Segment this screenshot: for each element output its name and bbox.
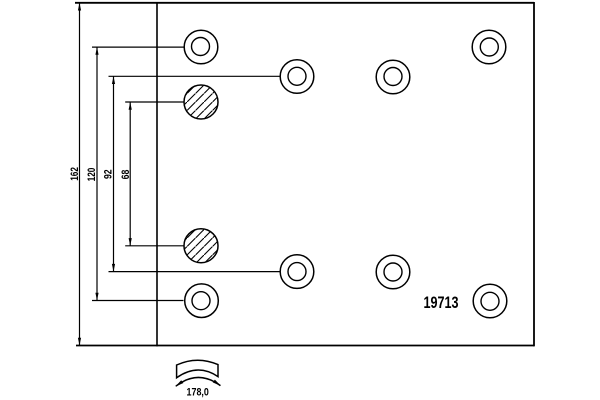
part outline left edge — [156, 2, 158, 346]
curved lining band symbol — [177, 360, 218, 378]
dimension 120 label — [86, 168, 98, 182]
hatched hole lower — [184, 229, 218, 263]
dimension 120 line — [95, 47, 98, 300]
dimension 120 bottom leader — [92, 300, 184, 302]
svg-text:68: 68 — [120, 170, 132, 180]
dimension 68 label — [120, 170, 132, 180]
hole ring top third — [376, 60, 410, 94]
hole ring bottom third — [376, 255, 410, 289]
dimension 68 line — [129, 102, 132, 246]
svg-text:120: 120 — [86, 168, 98, 182]
dimension 92 label — [103, 169, 115, 179]
dimension 162 line — [78, 3, 81, 346]
dimension 92 bottom leader — [109, 271, 280, 273]
hole ring top second — [280, 60, 314, 94]
part number 19713 — [424, 294, 459, 312]
svg-text:19713: 19713 — [424, 294, 459, 312]
dimension 92 line — [112, 76, 115, 271]
dimension 92 top leader — [109, 75, 280, 77]
svg-text:162: 162 — [69, 167, 81, 181]
hatched hole upper — [184, 85, 218, 119]
hole ring bottom second — [280, 255, 314, 289]
dimension 120 top leader — [92, 46, 184, 48]
svg-text:92: 92 — [103, 169, 115, 179]
dimension 162 label — [69, 167, 81, 181]
part outline bottom edge — [76, 345, 534, 347]
dimension 68 top leader — [125, 101, 184, 103]
svg-text:178,0: 178,0 — [187, 387, 209, 399]
part outline right edge — [533, 2, 535, 346]
arc-length dimension arc — [175, 377, 221, 386]
arc length label 178,0 — [187, 387, 209, 399]
hole ring bottom-right — [473, 284, 507, 318]
hole ring top-left — [184, 30, 218, 64]
hole ring top-right — [472, 30, 506, 64]
hole ring bottom-left — [185, 284, 219, 318]
part outline top edge — [75, 2, 534, 4]
dimension 68 bottom leader — [125, 245, 184, 247]
